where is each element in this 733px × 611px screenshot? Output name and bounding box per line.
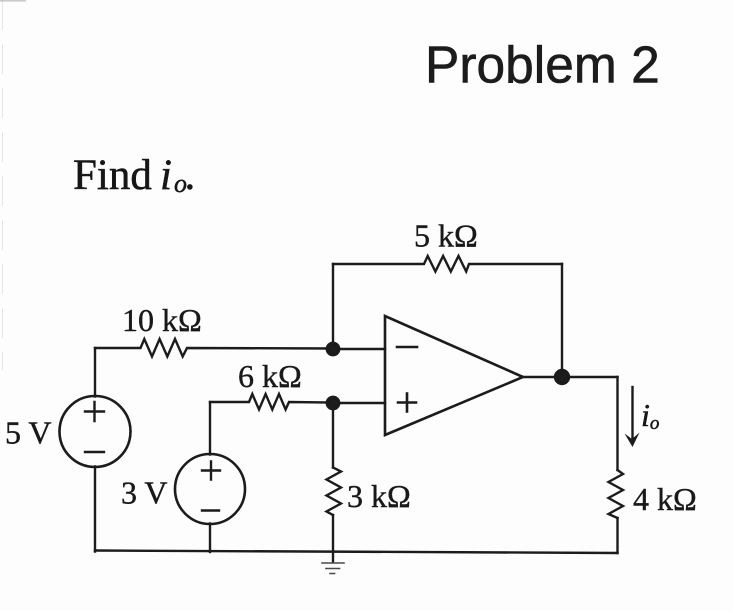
resistor R1 10 kOhm with wire	[95, 339, 333, 357]
svg-text:5 V: 5 V	[5, 415, 52, 451]
svg-text:3 kΩ: 3 kΩ	[347, 478, 411, 514]
wire node A to op-amp inverting input	[333, 348, 385, 350]
V1 minus sign	[85, 451, 104, 453]
current arrow io	[631, 387, 633, 440]
resistor R4 3 kOhm	[327, 468, 342, 516]
svg-text:Problem 2: Problem 2	[425, 36, 660, 94]
V1 plus sign	[85, 402, 104, 421]
wire bottom rail	[95, 551, 618, 554]
svg-text:4 kΩ: 4 kΩ	[633, 481, 697, 517]
resistor R3 6 kOhm with wire	[210, 394, 333, 410]
junction node A (inverting input)	[327, 343, 339, 355]
scan edge artifact top-left	[0, 0, 26, 2]
V2 minus sign	[202, 509, 219, 511]
wire node B to op-amp non-inverting input	[333, 402, 385, 404]
wire R5 bottom to bottom rail	[616, 518, 618, 553]
junction node B (non-inverting input)	[327, 397, 339, 409]
svg-text:3 V: 3 V	[121, 475, 168, 511]
svg-text:6 kΩ: 6 kΩ	[238, 358, 302, 394]
op-amp minus sign	[397, 346, 417, 349]
scan edge artifact left	[2, 0, 4, 370]
svg-text:10 kΩ: 10 kΩ	[122, 302, 202, 338]
svg-text:5 kΩ: 5 kΩ	[414, 218, 478, 254]
op-amp plus sign	[398, 394, 416, 412]
ground symbol	[322, 563, 344, 574]
wire V2 top to R3 corner	[209, 402, 211, 455]
svg-text:io: io	[641, 397, 659, 434]
wire V1 bottom to bottom rail	[94, 467, 96, 552]
V2 plus sign	[202, 462, 220, 480]
wire feedback right vertical	[561, 264, 563, 377]
resistor R2 5 kOhm feedback with wire	[333, 256, 562, 272]
resistor R5 4 kOhm	[609, 470, 624, 518]
wire left rail down to V1 top	[94, 348, 96, 397]
wire node B down to R4	[332, 403, 334, 468]
wire feedback left vertical	[332, 264, 334, 349]
wire R4 bottom through rail to ground	[332, 515, 334, 562]
wire right branch down to R5	[616, 377, 618, 470]
op-amp U1	[385, 316, 523, 435]
voltage source V1 5 V	[60, 396, 131, 467]
wire V2 bottom to bottom rail	[209, 524, 211, 553]
wire op-amp output to right corner	[523, 376, 618, 378]
svg-text:Findio.: Findio.	[73, 152, 195, 199]
voltage source V2 3 V	[175, 454, 245, 524]
junction node output	[555, 370, 569, 384]
